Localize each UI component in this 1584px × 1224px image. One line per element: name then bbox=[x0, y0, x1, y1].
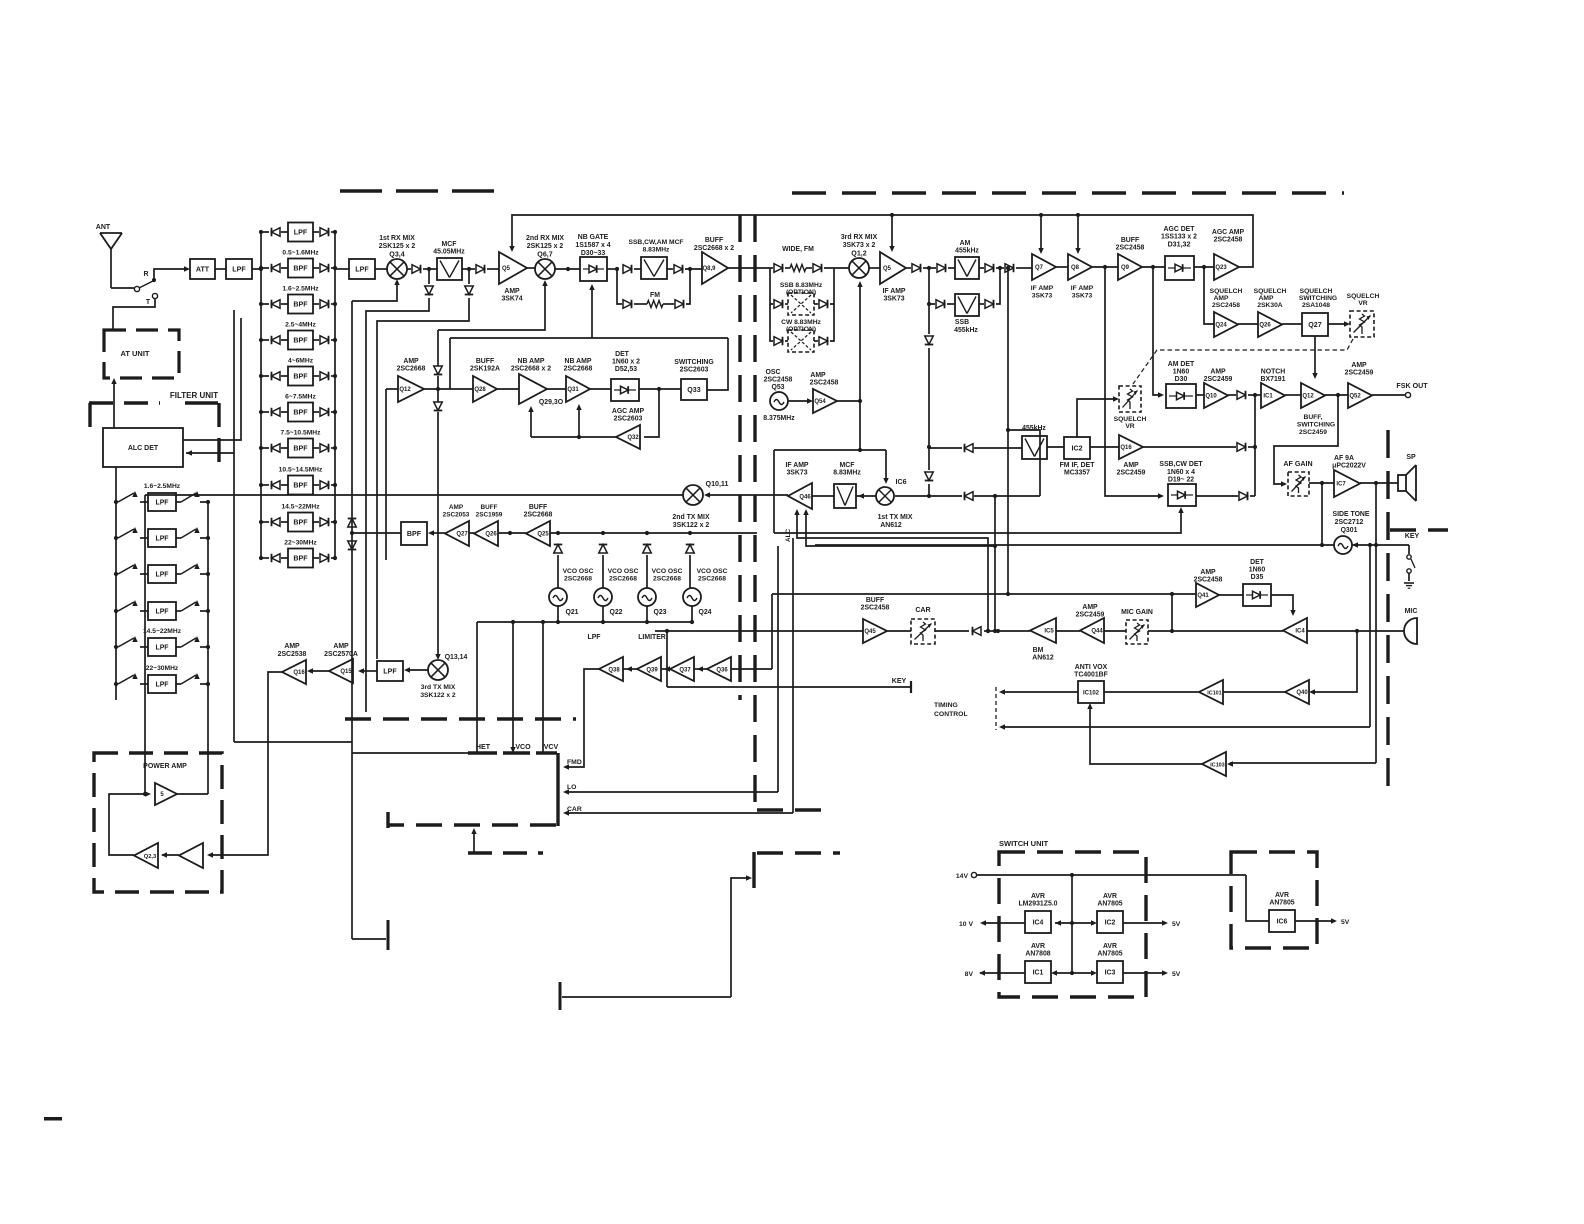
buffer switching Q12 2SC2459 bbox=[1285, 394, 1301, 396]
svg-text:Q25: Q25 bbox=[537, 532, 549, 538]
svg-text:LPF: LPF bbox=[294, 228, 308, 236]
amp Q10 2SC2459 bbox=[1196, 394, 1204, 396]
wire key into sidetone bbox=[1352, 542, 1358, 547]
svg-text:NOTCH: NOTCH bbox=[1261, 369, 1286, 376]
amp Q40 bbox=[1285, 680, 1309, 704]
svg-text:LPF: LPF bbox=[355, 265, 369, 273]
svg-text:IF AMP: IF AMP bbox=[882, 288, 905, 295]
svg-text:SSB 8.83MHz: SSB 8.83MHz bbox=[780, 282, 823, 289]
svg-text:2.5~4MHz: 2.5~4MHz bbox=[285, 322, 316, 329]
dashed link squelch VR bbox=[1133, 339, 1353, 384]
svg-text:IC6: IC6 bbox=[1277, 918, 1288, 925]
wire IC2 to squelch VR bbox=[1077, 399, 1115, 437]
low pass filter LPF bbox=[226, 259, 252, 279]
svg-text:5V: 5V bbox=[1172, 971, 1181, 978]
svg-text:IC4: IC4 bbox=[1295, 629, 1305, 635]
svg-text:AN7805: AN7805 bbox=[1097, 951, 1122, 958]
svg-text:3SK73: 3SK73 bbox=[883, 296, 904, 303]
wire to FM 455 filter bbox=[929, 447, 962, 449]
svg-text:AMP: AMP bbox=[449, 504, 464, 511]
crystal filter AM 455kHz bbox=[955, 257, 979, 279]
low pass filter LPF 22~30MHz bbox=[114, 665, 210, 693]
low pass filter LPF row bbox=[114, 563, 210, 583]
switch R/T antenna relay bbox=[134, 271, 157, 306]
svg-text:14.5~22MHz: 14.5~22MHz bbox=[281, 504, 320, 511]
svg-text:AN7805: AN7805 bbox=[1269, 900, 1294, 907]
svg-text:AMP: AMP bbox=[1123, 462, 1139, 469]
wire 14V line bbox=[977, 874, 1246, 876]
diode MCF to BUFF bbox=[667, 268, 673, 270]
svg-text:Q8,9: Q8,9 bbox=[702, 266, 716, 272]
svg-text:Q8: Q8 bbox=[1071, 265, 1080, 271]
svg-text:AGC DET: AGC DET bbox=[1163, 226, 1195, 233]
svg-text:Q24: Q24 bbox=[1215, 323, 1227, 329]
svg-text:BUFF,: BUFF, bbox=[1304, 414, 1323, 421]
wire key branch bbox=[666, 631, 668, 687]
attenuator ATT bbox=[190, 259, 215, 279]
wire ALC line 2 bbox=[994, 496, 996, 631]
svg-text:Q16: Q16 bbox=[293, 670, 305, 676]
wire NB gate control bbox=[450, 284, 728, 390]
svg-text:Q21: Q21 bbox=[565, 609, 578, 616]
diode AM filter out bbox=[979, 267, 984, 269]
svg-text:TIMING: TIMING bbox=[934, 702, 958, 709]
svg-text:MC3357: MC3357 bbox=[1064, 470, 1090, 477]
DET 1N60 x 2 D52,53 bbox=[590, 388, 611, 390]
svg-text:455kHz: 455kHz bbox=[954, 327, 978, 334]
svg-text:SIDE TONE: SIDE TONE bbox=[1332, 511, 1369, 518]
ANT antenna bbox=[96, 224, 122, 288]
timing control dashed boundary bbox=[995, 687, 997, 730]
svg-text:5V: 5V bbox=[1341, 919, 1350, 926]
svg-text:AMP: AMP bbox=[333, 643, 349, 650]
svg-text:NB AMP: NB AMP bbox=[518, 358, 545, 365]
crystal filter SSB,CW,AM MCF 8.83MHz bbox=[641, 257, 667, 279]
wire audio to AF GAIN from switching bbox=[1336, 393, 1340, 397]
wire LO bus x438 vertical bbox=[437, 330, 439, 366]
svg-text:BM: BM bbox=[1033, 647, 1044, 654]
diode MCF to Q5 bbox=[462, 268, 469, 270]
svg-text:Q5: Q5 bbox=[883, 266, 892, 272]
diode after 1st RX MIX bbox=[407, 268, 411, 270]
mixer 1st RX MIX Q3,4 bbox=[379, 235, 416, 279]
ANTI VOX IC102 TC4001BF bbox=[1104, 691, 1199, 693]
svg-text:VCO OSC: VCO OSC bbox=[697, 568, 728, 575]
AVR IC2 AN7805 bbox=[1097, 911, 1123, 933]
AVR IC3 AN7805 bbox=[1097, 961, 1123, 983]
amp SQUELCH AMP Q24 2SC2458 bbox=[1214, 312, 1238, 337]
svg-text:SP: SP bbox=[1406, 454, 1416, 461]
dashed boundary below PLL bbox=[468, 851, 543, 854]
right filter bus bbox=[207, 502, 209, 794]
svg-text:WIDE, FM: WIDE, FM bbox=[782, 246, 814, 253]
amp Q41 2SC2458 bbox=[1196, 583, 1219, 607]
oscillator OSC Q53 2SC2458 8.375MHz bbox=[770, 392, 788, 410]
svg-text:AN7808: AN7808 bbox=[1025, 951, 1050, 958]
filter BPF 22~30MHz bbox=[259, 540, 337, 568]
svg-text:BPF: BPF bbox=[293, 518, 308, 526]
svg-text:Q10: Q10 bbox=[1205, 394, 1217, 400]
svg-text:Q2,3: Q2,3 bbox=[144, 854, 157, 860]
amp limiter Q39 bbox=[623, 668, 637, 670]
svg-text:IC6: IC6 bbox=[895, 478, 906, 486]
RF unit boundary dashed line top-left bbox=[340, 189, 499, 193]
wire ATT to LPF bbox=[215, 268, 226, 270]
svg-text:2nd RX MIX: 2nd RX MIX bbox=[526, 235, 564, 242]
svg-text:SQUELCH: SQUELCH bbox=[1114, 416, 1147, 423]
left filter bus bbox=[115, 467, 117, 700]
svg-text:Q12: Q12 bbox=[399, 387, 411, 393]
wire VCO output bus bbox=[477, 606, 694, 753]
amp power driver pair Q2,3 bbox=[179, 843, 203, 868]
wire IC3 5V out bbox=[1072, 972, 1093, 974]
svg-text:μPC2022V: μPC2022V bbox=[1332, 463, 1366, 470]
wire vertical TX/LO bus x352 bbox=[351, 301, 353, 939]
svg-text:FSK OUT: FSK OUT bbox=[1396, 382, 1428, 390]
svg-text:3SK73 x 2: 3SK73 x 2 bbox=[843, 242, 876, 249]
svg-text:2SC2458: 2SC2458 bbox=[1194, 577, 1223, 584]
filter BPF 10.5~14.5MHz bbox=[259, 467, 337, 495]
buffer Q9 2SC2458 bbox=[1118, 254, 1142, 280]
wire T/R switching drop B bbox=[468, 269, 470, 284]
wire stub left bbox=[352, 938, 386, 940]
svg-text:22~30MHz: 22~30MHz bbox=[146, 665, 179, 672]
svg-text:D52,53: D52,53 bbox=[615, 366, 637, 373]
amp Q15 2SC2570A bbox=[361, 670, 377, 672]
wire sp line down bbox=[1375, 483, 1377, 545]
svg-text:LPF: LPF bbox=[155, 608, 168, 615]
svg-text:D31,32: D31,32 bbox=[1168, 241, 1191, 249]
wire Q12 out junction diodes bbox=[424, 366, 473, 411]
AVR IC1 AN7808 bbox=[1025, 961, 1051, 983]
wire Q46 to 2nd TX MIX bbox=[707, 494, 788, 496]
wire key line to IC103 bbox=[1230, 762, 1376, 764]
wire LO into Q3,4 bbox=[352, 282, 397, 301]
svg-text:2SC2458: 2SC2458 bbox=[810, 380, 839, 387]
svg-text:1N60 x 4: 1N60 x 4 bbox=[1167, 469, 1195, 476]
amp AGC AMP Q32 2SC2603 bbox=[644, 389, 659, 437]
svg-text:DET: DET bbox=[615, 351, 630, 358]
svg-text:AM: AM bbox=[960, 240, 971, 247]
svg-text:2SK192A: 2SK192A bbox=[470, 366, 500, 373]
wire BPF bank to LPF2 bbox=[335, 268, 349, 270]
filter CW 8.83MHz OPTION bbox=[770, 304, 834, 352]
svg-text:VR: VR bbox=[1358, 300, 1367, 307]
svg-text:Q29,3O: Q29,3O bbox=[539, 399, 564, 406]
svg-text:2SC2668: 2SC2668 bbox=[698, 576, 726, 583]
svg-text:AT UNIT: AT UNIT bbox=[120, 349, 149, 358]
amp Q54 2SC2458 bbox=[788, 400, 810, 402]
AVR IC6 AN7805 bbox=[1246, 875, 1269, 921]
wire IC102 out to timing bbox=[1002, 691, 1078, 693]
svg-text:BUFF: BUFF bbox=[480, 504, 497, 511]
svg-text:MCF: MCF bbox=[840, 462, 855, 469]
svg-text:Q45: Q45 bbox=[864, 629, 876, 635]
svg-text:AGC AMP: AGC AMP bbox=[612, 408, 645, 415]
svg-text:Q27: Q27 bbox=[1308, 321, 1321, 329]
svg-text:3SK122 x 2: 3SK122 x 2 bbox=[673, 522, 710, 529]
wire antenna to RX switch bbox=[111, 287, 134, 289]
svg-text:IC3: IC3 bbox=[1105, 969, 1116, 976]
svg-text:Q54: Q54 bbox=[814, 399, 826, 405]
svg-text:Q32: Q32 bbox=[627, 435, 639, 441]
svg-text:IF AMP: IF AMP bbox=[1031, 285, 1054, 292]
oscillator SIDE TONE Q301 2SC2712 bbox=[1334, 536, 1352, 554]
svg-text:VCO OSC: VCO OSC bbox=[563, 568, 594, 575]
svg-text:2SC2458: 2SC2458 bbox=[1212, 302, 1240, 309]
svg-text:BUFF: BUFF bbox=[529, 504, 547, 511]
amp IF AMP Q8 bbox=[1068, 254, 1092, 280]
CAR VR bbox=[911, 619, 935, 644]
svg-text:2SC2458: 2SC2458 bbox=[1214, 237, 1243, 244]
svg-text:3SK74: 3SK74 bbox=[501, 296, 522, 303]
svg-text:BPF: BPF bbox=[293, 554, 308, 562]
low pass filter LPF after bank bbox=[349, 259, 375, 279]
mixer 1st TX MIX IC6 bbox=[856, 495, 876, 497]
svg-text:Q27: Q27 bbox=[456, 532, 468, 538]
svg-text:LPF: LPF bbox=[155, 681, 168, 688]
svg-text:45.05MHz: 45.05MHz bbox=[433, 249, 465, 256]
svg-text:CW 8.83MHz: CW 8.83MHz bbox=[781, 319, 821, 326]
wire IC4 to MIC GAIN bbox=[1148, 630, 1283, 632]
svg-text:Q36: Q36 bbox=[716, 668, 728, 674]
wire IC4 10V out bbox=[1055, 922, 1072, 924]
diode Q10 out bbox=[1228, 394, 1236, 396]
svg-text:SQUELCH: SQUELCH bbox=[1300, 288, 1333, 295]
wire LO into Q6,7 from HET line bbox=[438, 283, 545, 330]
svg-text:VCO OSC: VCO OSC bbox=[608, 568, 639, 575]
svg-text:AMP: AMP bbox=[1259, 295, 1274, 302]
svg-text:Q23: Q23 bbox=[653, 609, 666, 616]
svg-text:3SK73: 3SK73 bbox=[1072, 293, 1093, 300]
svg-text:Q16: Q16 bbox=[1120, 445, 1132, 451]
filter BPF 6~7.5MHz bbox=[259, 394, 337, 422]
svg-text:LPF: LPF bbox=[155, 644, 168, 651]
svg-text:MIC GAIN: MIC GAIN bbox=[1121, 609, 1153, 616]
svg-text:2SC2668: 2SC2668 bbox=[564, 576, 592, 583]
svg-text:2SC2668: 2SC2668 bbox=[609, 576, 637, 583]
wire R contact to ATT bbox=[154, 269, 187, 278]
AF GAIN VR bbox=[1288, 472, 1309, 496]
svg-text:1st TX MIX: 1st TX MIX bbox=[878, 514, 913, 521]
wire IC7 to speaker bbox=[1360, 482, 1398, 484]
svg-text:IC2: IC2 bbox=[1071, 444, 1082, 452]
IF unit boundary dashed line top-right bbox=[792, 191, 1344, 195]
svg-text:SWITCHING: SWITCHING bbox=[674, 359, 713, 366]
svg-text:POWER AMP: POWER AMP bbox=[143, 763, 187, 770]
svg-text:0.5~1.6MHz: 0.5~1.6MHz bbox=[282, 250, 319, 257]
wire sidetone line bbox=[815, 544, 1334, 546]
buffer Q8,9 2SC2668 x 2 bbox=[702, 252, 728, 284]
wire carrier line down bbox=[1007, 268, 1009, 594]
amp limiter Q36 bbox=[694, 668, 707, 670]
svg-text:KEY: KEY bbox=[892, 677, 907, 685]
svg-text:Q22: Q22 bbox=[609, 609, 622, 616]
svg-text:AMP: AMP bbox=[1214, 295, 1229, 302]
balanced modulator IC5 AN612 bbox=[1056, 630, 1080, 632]
svg-text:1SS133 x 2: 1SS133 x 2 bbox=[1161, 234, 1197, 241]
svg-text:Q46: Q46 bbox=[799, 495, 811, 501]
svg-text:LPF: LPF bbox=[383, 667, 397, 675]
svg-text:1N60 x 2: 1N60 x 2 bbox=[612, 359, 640, 366]
wire AGC feedback line bbox=[509, 213, 1253, 267]
svg-text:NB GATE: NB GATE bbox=[578, 234, 609, 241]
svg-text:2SC2458: 2SC2458 bbox=[764, 377, 793, 384]
band pass filter BPF TX bbox=[401, 522, 427, 545]
svg-text:IC7: IC7 bbox=[1336, 482, 1346, 488]
svg-text:2SC2668: 2SC2668 bbox=[653, 576, 681, 583]
svg-text:AMP: AMP bbox=[284, 643, 300, 650]
buffer Q28 2SK192A bbox=[473, 376, 497, 402]
wire Q5 to 2nd RX MIX bbox=[527, 267, 535, 269]
microphone MIC bbox=[1404, 608, 1417, 644]
svg-text:IF AMP: IF AMP bbox=[1071, 285, 1094, 292]
svg-text:SWITCHING: SWITCHING bbox=[1299, 295, 1337, 302]
svg-text:IC5: IC5 bbox=[1044, 629, 1054, 635]
PLL unit boundary right edge bbox=[556, 753, 559, 826]
svg-text:LIMITER: LIMITER bbox=[638, 634, 666, 641]
svg-text:LPF: LPF bbox=[587, 634, 600, 641]
buffer Q25 2SC2668 bbox=[498, 532, 526, 534]
wire T/R switching drop A bbox=[428, 269, 430, 284]
low pass filter LPF 14.5~22MHz bbox=[114, 628, 210, 656]
svg-text:Q24: Q24 bbox=[698, 609, 711, 616]
svg-text:(OPTION): (OPTION) bbox=[786, 326, 816, 333]
wire Q16 audio out bbox=[1143, 446, 1236, 448]
wire IC6 5V out bbox=[1295, 920, 1333, 922]
svg-text:DET: DET bbox=[1250, 559, 1265, 566]
oscillator VCO OSC Q21 bbox=[549, 588, 567, 606]
svg-text:1.6~2.5MHz: 1.6~2.5MHz bbox=[282, 286, 319, 293]
svg-text:2SC2570A: 2SC2570A bbox=[324, 651, 358, 658]
wire WIDE FM path bbox=[770, 246, 849, 272]
mixer 2nd TX MIX Q10,11 bbox=[683, 485, 703, 505]
svg-text:D35: D35 bbox=[1251, 574, 1264, 581]
wire VCO bus bbox=[550, 531, 757, 588]
svg-text:AVR: AVR bbox=[1103, 893, 1117, 900]
svg-text:Q44: Q44 bbox=[1091, 629, 1103, 635]
svg-text:2SC2459: 2SC2459 bbox=[1117, 470, 1146, 477]
BPF bank left bus bbox=[260, 232, 262, 558]
amp Q44 2SC2459 bbox=[1104, 630, 1126, 632]
filter BPF 7.5~10.5MHz bbox=[259, 430, 337, 458]
wire Q32 feedback bbox=[528, 404, 616, 439]
amp Q16 2SC2459 bbox=[1090, 446, 1119, 448]
wire Q54 LO to 3rd RX MIX and IC6 bbox=[774, 281, 889, 533]
svg-text:SWITCH UNIT: SWITCH UNIT bbox=[999, 839, 1049, 848]
filter BPF 14.5~22MHz bbox=[259, 504, 337, 532]
low pass filter LPF row bbox=[114, 600, 210, 620]
wire FM IF drop with diode bbox=[928, 304, 930, 334]
MIC GAIN VR bbox=[1126, 620, 1148, 644]
amp IC4 mic amp bbox=[1283, 618, 1307, 643]
wire mic to Q40 bbox=[1313, 631, 1357, 692]
svg-text:AGC AMP: AGC AMP bbox=[1212, 229, 1245, 236]
amp IF AMP Q46 3SK73 bbox=[788, 483, 812, 509]
filter SSB 8.83MHz OPTION bbox=[770, 268, 834, 315]
svg-text:IF AMP: IF AMP bbox=[785, 462, 808, 469]
amp IF AMP Q5 3SK73 bbox=[880, 252, 906, 284]
amp NB AMP Q29,30 2SC2668 x 2 bbox=[497, 388, 519, 390]
mixer 2nd RX MIX Q6,7 bbox=[535, 259, 555, 279]
svg-text:Q23: Q23 bbox=[1215, 265, 1227, 271]
svg-text:TC4001BF: TC4001BF bbox=[1074, 672, 1108, 679]
NB GATE D30~33 bbox=[580, 257, 607, 281]
wire IC6 input bbox=[895, 495, 962, 497]
svg-text:BPF: BPF bbox=[293, 444, 308, 452]
svg-text:IC1: IC1 bbox=[1263, 394, 1273, 400]
SWITCH UNIT dashed box bbox=[999, 852, 1146, 997]
svg-text:Q26: Q26 bbox=[485, 532, 497, 538]
svg-text:14V: 14V bbox=[956, 873, 969, 880]
wire Q12 input bbox=[386, 388, 398, 390]
filter LPF top row bbox=[259, 223, 337, 242]
svg-text:BPF: BPF bbox=[293, 408, 308, 416]
unit boundary corner bottom middle bbox=[757, 808, 822, 811]
svg-text:4~6MHz: 4~6MHz bbox=[288, 358, 314, 365]
switching Q33 2SC2603 bbox=[681, 379, 707, 400]
wire IC1 8V out bbox=[1055, 972, 1072, 974]
svg-text:Q6,7: Q6,7 bbox=[537, 251, 552, 259]
svg-text:ALC DET: ALC DET bbox=[128, 445, 159, 452]
PLL unit boundary bottom bbox=[388, 823, 556, 826]
crystal filter MCF 8.83MHz TX bbox=[812, 495, 834, 497]
svg-text:IC101: IC101 bbox=[1207, 691, 1221, 697]
svg-text:8V: 8V bbox=[965, 971, 974, 978]
svg-text:2SC2668: 2SC2668 bbox=[397, 366, 426, 373]
oscillator VCO OSC Q24 bbox=[683, 588, 701, 606]
svg-text:BPF: BPF bbox=[293, 264, 308, 272]
svg-text:BUFF: BUFF bbox=[866, 597, 884, 604]
buffer Q26 2SC1959 bbox=[469, 532, 474, 534]
svg-text:2SC2668: 2SC2668 bbox=[524, 512, 553, 519]
svg-text:10.5~14.5MHz: 10.5~14.5MHz bbox=[279, 467, 323, 474]
svg-text:AVR: AVR bbox=[1275, 892, 1289, 899]
svg-text:1S1587 x 4: 1S1587 x 4 bbox=[575, 242, 610, 249]
crystal filter SSB 455kHz branch bbox=[929, 268, 1000, 334]
crystal filter 455kHz FM bbox=[1022, 436, 1047, 459]
svg-text:BUFF: BUFF bbox=[476, 358, 494, 365]
svg-text:5V: 5V bbox=[1172, 921, 1181, 928]
svg-text:KEY: KEY bbox=[1405, 532, 1420, 540]
svg-text:BPF: BPF bbox=[293, 481, 308, 489]
svg-text:VCV: VCV bbox=[544, 743, 559, 751]
svg-text:2SC2603: 2SC2603 bbox=[614, 416, 643, 423]
svg-text:22~30MHz: 22~30MHz bbox=[284, 540, 317, 547]
svg-text:Q1,2: Q1,2 bbox=[851, 250, 866, 258]
svg-text:1st RX MIX: 1st RX MIX bbox=[379, 235, 415, 242]
svg-text:BX7191: BX7191 bbox=[1261, 376, 1286, 383]
wire 3rd RX MIX to IF amp Q5 bbox=[869, 267, 880, 269]
svg-text:AM DET: AM DET bbox=[1168, 361, 1195, 368]
DET 1N60 D35 bbox=[1219, 594, 1243, 596]
wire BFO carrier to det bbox=[774, 511, 1181, 533]
svg-text:VR: VR bbox=[1125, 423, 1134, 430]
wire return line down bbox=[1369, 545, 1371, 727]
svg-text:2SC2538: 2SC2538 bbox=[278, 651, 307, 658]
oscillator VCO OSC Q22 bbox=[594, 588, 612, 606]
svg-text:Q301: Q301 bbox=[1341, 527, 1358, 534]
wire stub right bbox=[562, 996, 731, 998]
wire BPF left to bus bbox=[352, 532, 401, 534]
svg-text:Q5: Q5 bbox=[502, 266, 511, 272]
amp IC101 bbox=[1223, 691, 1285, 693]
FILTER UNIT dashed boundary bbox=[89, 403, 219, 470]
svg-text:Q40: Q40 bbox=[1296, 690, 1308, 696]
svg-text:2SC2459: 2SC2459 bbox=[1299, 429, 1327, 436]
RF/IF unit boundary vertical dashed line left bbox=[738, 215, 741, 700]
AM DET 1N60 D30 bbox=[1166, 384, 1196, 408]
